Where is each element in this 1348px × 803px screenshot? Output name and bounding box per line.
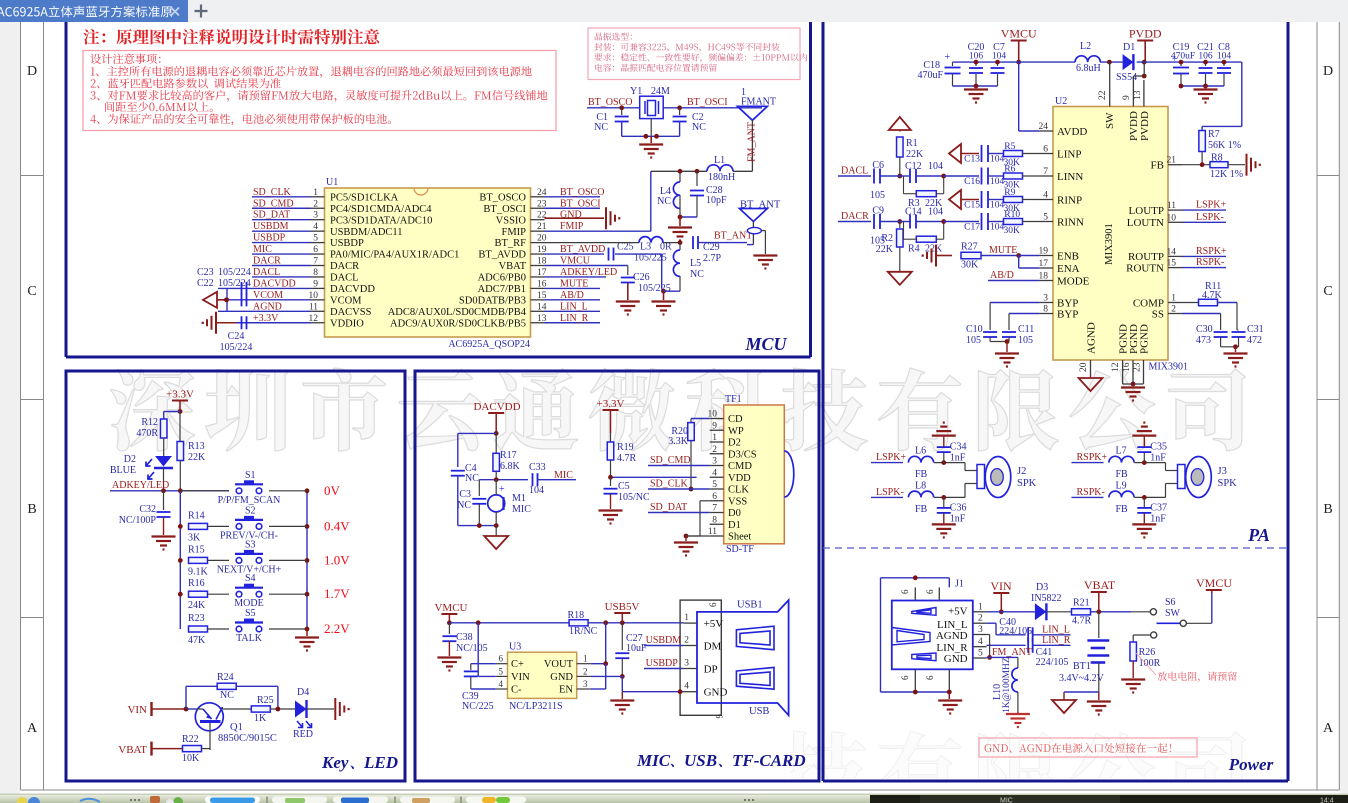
net USBDP (usb) (644, 658, 684, 669)
svg-text:C32: C32 (139, 504, 156, 515)
svg-text:C13: C13 (964, 155, 980, 165)
resistor R19 4.7R (607, 433, 636, 477)
svg-text:105/224: 105/224 (220, 342, 253, 353)
key ladder left rail (178, 491, 183, 629)
svg-text:S2: S2 (245, 505, 256, 516)
svg-text:20: 20 (1079, 362, 1089, 372)
battery ground rail (1052, 692, 1111, 715)
capacitor C14 104 (900, 207, 944, 229)
capacitor C26 105/225 (545, 256, 671, 315)
svg-text:R18: R18 (568, 610, 585, 621)
U1 pin 9 DACVDD (311, 279, 376, 295)
svg-text:1: 1 (712, 433, 717, 443)
resistor R6 30K (1004, 165, 1040, 191)
net DACR wire to U1 pin 7 (252, 256, 311, 267)
svg-text:VSS: VSS (728, 496, 747, 507)
svg-text:13: 13 (1133, 90, 1143, 100)
svg-text:R16: R16 (188, 578, 205, 589)
svg-text:7: 7 (1043, 167, 1048, 177)
op-amp U2 MIX3901 body (1053, 96, 1188, 373)
svg-text:104: 104 (928, 161, 943, 172)
note GND AGND box (979, 738, 1197, 757)
resistor R22 10K (182, 734, 210, 764)
net BT_OSCI pin23 wire (545, 198, 601, 209)
svg-text:USB: USB (684, 751, 717, 770)
regulator U3 NC/LP3211S (508, 642, 577, 713)
note heading (83, 29, 379, 45)
svg-text:MIC: MIC (636, 751, 671, 770)
svg-text:SD_CMD: SD_CMD (650, 455, 691, 466)
svg-text:0R: 0R (660, 242, 672, 253)
svg-text:FB: FB (1116, 504, 1129, 515)
svg-text:4.7K: 4.7K (1202, 290, 1223, 301)
svg-text:3: 3 (978, 625, 983, 635)
svg-text:104: 104 (928, 207, 943, 218)
mcu U1 AC6925A (325, 177, 531, 350)
capacitor C31 472 (1232, 324, 1264, 347)
svg-text:472: 472 (1247, 335, 1262, 346)
capacitor C17 104 (944, 213, 1005, 233)
switch S6 SW (1131, 592, 1212, 626)
svg-text:USB: USB (749, 706, 769, 717)
signal ground U1 pin22 (545, 207, 621, 229)
wire AVDD to VMCU rail (1019, 62, 1039, 131)
net AB/D pin15 (545, 290, 601, 301)
U2 pin 15 ROUTN (1126, 259, 1182, 275)
left bank ground rail (953, 84, 998, 103)
J1 label AGND (936, 630, 968, 642)
svg-text:22: 22 (1098, 90, 1108, 100)
svg-text:R26: R26 (1139, 647, 1156, 658)
signal ground at +3.3V row (202, 312, 236, 334)
U3 pin 3 EN (559, 679, 591, 696)
svg-text:CLK: CLK (728, 485, 749, 496)
svg-text:1: 1 (684, 613, 689, 623)
svg-text:6: 6 (900, 589, 910, 594)
wire BYP pin3 (990, 303, 1039, 331)
TF1 pin 9 WP (710, 421, 744, 437)
antenna BT_ANT (739, 200, 780, 255)
mic ground rail (458, 523, 508, 549)
net FM_ANT (power) (987, 647, 1032, 658)
svg-text:BLUE: BLUE (110, 465, 136, 476)
svg-text:AVDD: AVDD (1057, 126, 1087, 138)
taskbar (0, 794, 1348, 803)
svg-text:TF1: TF1 (725, 394, 742, 405)
svg-text:VIN: VIN (127, 704, 147, 716)
MIC USB TF section title (636, 751, 806, 770)
net SD_DAT (tf) (648, 502, 710, 513)
wire DACVDD-AGND bypass (224, 288, 229, 311)
resistor R25 1K (251, 695, 295, 724)
svg-text:6.8uH: 6.8uH (1076, 63, 1101, 74)
U1 pin 8 DACL (311, 268, 359, 284)
net SD_CLK wire to U1 pin 1 (252, 187, 311, 198)
inductor L2 6.8uH (1075, 41, 1101, 74)
svg-text:GND: GND (704, 687, 728, 699)
net VCOM wire to U1 pin 10 (218, 290, 311, 301)
svg-text:S5: S5 (245, 608, 256, 619)
power flag VBAT (power) (1084, 578, 1116, 612)
BT_ANT ground (747, 245, 777, 269)
C35 ground (1132, 423, 1156, 436)
svg-text:4.7R: 4.7R (617, 453, 637, 464)
crystal Y1 24M (630, 86, 670, 119)
wire U3 VOUT up (591, 623, 608, 666)
inductor L10 1K@100MHZ (992, 657, 1018, 713)
svg-text:L5: L5 (690, 258, 701, 269)
svg-text:C: C (1323, 284, 1332, 299)
capacitor C37 1nF (1137, 497, 1167, 524)
svg-text:NC/225: NC/225 (462, 701, 494, 712)
svg-text:IN5822: IN5822 (1031, 593, 1062, 604)
svg-text:C15: C15 (964, 201, 980, 211)
svg-text:105/224: 105/224 (218, 267, 251, 278)
svg-text:PA0/MIC/PA4/AUX1R/ADC1: PA0/MIC/PA4/AUX1R/ADC1 (330, 250, 459, 261)
wire R19 to VDD (608, 475, 697, 480)
U1 pin 16 ADC7/PB1 (478, 279, 547, 295)
svg-text:ADC9/AUX0R/SD0CLKB/PB5: ADC9/AUX0R/SD0CLKB/PB5 (390, 318, 526, 329)
svg-text:FMIP: FMIP (501, 227, 526, 238)
svg-text:R4: R4 (908, 244, 920, 255)
U1 pin 11 DACVSS (309, 302, 372, 318)
svg-text:8: 8 (1043, 305, 1048, 315)
svg-text:B: B (27, 502, 36, 517)
node VCOM ref triangle (203, 292, 229, 308)
right bank ground rail (1179, 84, 1224, 103)
power flag DACVDD (473, 401, 520, 436)
svg-text:ROUTN: ROUTN (1126, 262, 1164, 274)
J1 pin 5 (973, 649, 987, 659)
svg-text:105: 105 (966, 335, 981, 346)
capacitor C20 106 (968, 42, 985, 86)
svg-text:PC4/SD1CMDA/ADC4: PC4/SD1CMDA/ADC4 (330, 204, 432, 215)
svg-text:MIC: MIC (512, 504, 531, 515)
svg-text:FB: FB (915, 469, 928, 480)
inductor L6 FB (908, 446, 965, 481)
wire DACVDD branch (458, 433, 496, 467)
svg-text:8: 8 (712, 515, 717, 525)
USB1 pin 1 +5V (684, 613, 724, 630)
wire +5V row (987, 611, 1035, 613)
svg-text:ADKEY/LED: ADKEY/LED (112, 480, 169, 491)
svg-text:0.4V: 0.4V (324, 518, 350, 533)
svg-text:+: + (499, 484, 505, 495)
svg-text:VIN: VIN (511, 672, 530, 683)
resistor R11 4.7K (1182, 281, 1237, 330)
svg-text:C34: C34 (950, 442, 967, 453)
svg-text:5: 5 (712, 480, 717, 490)
svg-text:VBAT: VBAT (1084, 578, 1116, 592)
svg-text:1nF: 1nF (950, 453, 966, 464)
TF1 pin 5 CLK (710, 480, 750, 496)
svg-text:AB/D: AB/D (990, 270, 1014, 281)
svg-text:S1: S1 (245, 470, 256, 481)
power flag VMCU (power) (1196, 576, 1232, 593)
net label BT_OSCI (top) (663, 97, 762, 110)
U2 pin 20 AGND (1079, 322, 1103, 391)
svg-text:C5: C5 (618, 481, 630, 492)
U3 pin 5 VIN (496, 666, 530, 683)
wire SS to C30 (1182, 314, 1221, 331)
svg-text:9: 9 (1122, 95, 1132, 100)
svg-text:Key: Key (321, 753, 349, 772)
svg-text:USBDM: USBDM (253, 221, 289, 232)
svg-text:FB: FB (1151, 160, 1164, 172)
svg-text:106: 106 (969, 52, 984, 62)
power flag VMCU (PA) (1001, 27, 1037, 65)
svg-text:D3: D3 (1036, 582, 1048, 593)
net GND pin22 label (560, 210, 582, 221)
svg-text:10uF: 10uF (626, 643, 647, 654)
wire Sheet to gnd (674, 534, 710, 556)
power flag VMCU (usb) (434, 602, 467, 625)
TF1 pin 6 VSS (710, 492, 748, 508)
svg-text:R5: R5 (1004, 142, 1015, 152)
U2 pin 11 LOUTP (1129, 201, 1182, 217)
J1 label LIN_R (936, 642, 968, 654)
U3 pin 6 C+ (496, 654, 524, 671)
svg-text:24K: 24K (188, 600, 206, 611)
J1 label LIN_L (937, 619, 968, 631)
svg-text:LSPK-: LSPK- (1196, 212, 1224, 223)
net MUTE (989, 245, 1039, 268)
U1 pin 7 DACR (311, 257, 360, 273)
svg-text:C6: C6 (872, 160, 884, 171)
svg-text:NC: NC (692, 122, 706, 133)
C1 C2 plates (615, 117, 687, 139)
svg-text:104: 104 (990, 155, 1005, 165)
svg-text:C33: C33 (529, 462, 546, 473)
svg-text:6: 6 (925, 675, 935, 680)
U1 pin 23 BT_OSCI (483, 199, 546, 215)
diode D1 SS54 (1116, 42, 1137, 83)
net RSPK- (1072, 487, 1105, 498)
U3 pin 2 GND (550, 666, 590, 683)
svg-text:C23: C23 (197, 267, 214, 278)
usb connector USB1 shield (680, 600, 724, 719)
TF1 pin 8 D1 (710, 515, 741, 531)
svg-text:D1: D1 (728, 520, 741, 531)
crystal ground (639, 136, 663, 157)
capacitor C4 NC (451, 463, 479, 526)
svg-text:VMCU: VMCU (560, 256, 591, 267)
svg-text:30K: 30K (1004, 226, 1021, 236)
svg-text:3: 3 (583, 679, 588, 689)
speaker J2 SPK (965, 457, 1037, 498)
svg-text:SW: SW (1165, 608, 1181, 619)
svg-text:BT1: BT1 (1073, 661, 1091, 672)
svg-text:TALK: TALK (236, 633, 263, 644)
Key LED section title (321, 753, 398, 772)
svg-text:3: 3 (684, 659, 689, 669)
svg-text:U1: U1 (326, 177, 338, 188)
net MUTE pin16 (545, 278, 601, 289)
svg-text:MUTE: MUTE (989, 245, 1017, 256)
svg-text:4: 4 (313, 222, 318, 232)
svg-text:9: 9 (313, 279, 318, 289)
svg-text:5: 5 (313, 234, 318, 244)
capacitor C10 105 (966, 324, 997, 346)
svg-text:S6: S6 (1165, 597, 1176, 608)
microphone M1 MIC (488, 480, 532, 526)
svg-text:RSPK+: RSPK+ (1077, 452, 1108, 463)
svg-text:2: 2 (313, 199, 318, 209)
U1 pin 17 ADC6/PB0 (478, 268, 547, 284)
net LIN_L (power) (1042, 625, 1070, 636)
svg-text:6: 6 (925, 589, 935, 594)
svg-text:1.7V: 1.7V (324, 586, 350, 601)
svg-text:P/P/FM_SCAN: P/P/FM_SCAN (218, 495, 281, 506)
capacitor C40 224/105 (999, 617, 1070, 642)
U2 pin 14 ROUTP (1128, 247, 1182, 263)
svg-text:DACR: DACR (330, 261, 359, 272)
svg-text:+3.3V: +3.3V (166, 389, 194, 401)
svg-text:L9: L9 (1116, 480, 1127, 491)
capacitor C15 104 (964, 191, 1004, 211)
svg-text:DP: DP (704, 663, 718, 675)
svg-text:6: 6 (499, 654, 504, 664)
svg-text:PVDD: PVDD (1129, 27, 1162, 41)
svg-text:RED: RED (293, 729, 313, 740)
svg-text:C16: C16 (964, 177, 980, 187)
watermark row 1 (110, 368, 1245, 451)
usb5v rail (449, 620, 569, 625)
net label BT_OSCO (top) (587, 97, 640, 110)
signal ground R27 (922, 245, 952, 267)
J1 pin 1 (973, 602, 987, 612)
svg-text:LINP: LINP (1057, 148, 1081, 160)
svg-text:21: 21 (1167, 156, 1177, 166)
capacitor C29 2.7P (693, 231, 752, 265)
svg-text:14: 14 (1167, 247, 1177, 257)
svg-text:Y1: Y1 (630, 86, 642, 97)
svg-text:USBDM: USBDM (646, 635, 682, 646)
inductor L3 0R (545, 237, 683, 253)
switch S2 PREV/V-/CH- (220, 505, 307, 541)
svg-text:L6: L6 (915, 446, 926, 457)
resistor R15 9.1K (188, 544, 229, 577)
svg-text:NC/105: NC/105 (456, 643, 488, 654)
crystal selection note box (588, 28, 807, 80)
net USBDP wire to U1 pin 5 (252, 233, 311, 244)
U2 pin 5 RINN (1039, 213, 1084, 229)
switch S5 TALK (235, 608, 307, 644)
U2 pin 19 ENB (1039, 247, 1080, 263)
svg-text:2: 2 (583, 666, 588, 676)
wire LIN_L from J1 (987, 623, 1026, 635)
svg-text:PC3/SD1DATA/ADC10: PC3/SD1DATA/ADC10 (330, 215, 432, 226)
svg-text:1: 1 (978, 602, 983, 612)
wire VIN node (184, 686, 217, 711)
svg-text:ADC7/PB1: ADC7/PB1 (478, 284, 526, 295)
net ADKEY/LED pin17 wire (545, 267, 618, 278)
svg-text:LIN_R: LIN_R (560, 313, 589, 324)
svg-text:47K: 47K (188, 635, 206, 646)
svg-text:C24: C24 (228, 331, 245, 342)
svg-text:4.7R: 4.7R (1072, 616, 1092, 627)
svg-text:R14: R14 (188, 510, 205, 521)
svg-text:NC: NC (657, 196, 671, 207)
svg-text:C31: C31 (1247, 324, 1264, 335)
svg-text:12: 12 (1111, 362, 1121, 372)
capacitor C41 224/105 (1028, 638, 1070, 668)
svg-text:105: 105 (870, 190, 885, 201)
svg-text:LSPK-: LSPK- (876, 487, 904, 498)
U1 pin 1 PC5/SD1CLKA (311, 188, 399, 204)
inductor L5 NC (673, 243, 704, 292)
resistor R26 100R (1121, 642, 1160, 693)
L10 ground (1006, 712, 1030, 727)
power flag USB5V (605, 601, 640, 623)
svg-text:17: 17 (1039, 259, 1049, 269)
svg-text:L3: L3 (640, 242, 651, 253)
wire rail to R7 (1202, 62, 1242, 132)
svg-text:SD_DAT: SD_DAT (253, 210, 290, 221)
svg-text:USBDP: USBDP (330, 238, 364, 249)
BYP ground (990, 339, 1019, 366)
net DACR (838, 211, 902, 224)
svg-text:PA: PA (1247, 525, 1270, 545)
net LIN_L pin14 (545, 301, 601, 312)
svg-text:R24: R24 (217, 672, 234, 683)
svg-text:BYP: BYP (1057, 308, 1078, 320)
svg-text:AGND: AGND (936, 630, 968, 642)
net SD_CMD (tf) (648, 455, 710, 466)
wire Q1 collector row (223, 708, 252, 710)
power flag PVDD (1129, 27, 1162, 65)
svg-text:1R/NC: 1R/NC (569, 626, 598, 637)
svg-text:NC: NC (465, 473, 479, 484)
svg-text:C9: C9 (872, 206, 884, 217)
design notes box (83, 51, 556, 131)
svg-text:Power: Power (1228, 755, 1274, 774)
U2 pin 18 MODE (1039, 272, 1090, 288)
svg-text:104: 104 (992, 52, 1007, 62)
USB1 pin 2 DM (684, 636, 722, 653)
svg-text:180nH: 180nH (708, 172, 735, 183)
svg-text:FB: FB (915, 504, 928, 515)
U2 pin 17 ENA (1039, 259, 1080, 275)
U2 pin 6 LINP (1039, 145, 1081, 161)
resistor R13 22K (177, 412, 206, 491)
svg-text:R27: R27 (961, 242, 978, 253)
svg-text:C30: C30 (1196, 324, 1213, 335)
svg-text:VBAT: VBAT (118, 744, 147, 756)
svg-text:R15: R15 (188, 544, 205, 555)
capacitor C30 473 (1196, 324, 1228, 347)
net BT_OSCO pin24 wire (545, 187, 605, 198)
U1 pin 3 PC3/SD1DATA/ADC10 (311, 211, 433, 227)
net RSPK+ (1072, 452, 1108, 463)
svg-text:30K: 30K (1004, 181, 1021, 191)
svg-text:L8: L8 (915, 480, 926, 491)
Key LED section box (66, 371, 405, 781)
svg-text:R1: R1 (906, 138, 918, 149)
svg-text:BT_OSCO: BT_OSCO (588, 97, 632, 108)
svg-text:2: 2 (684, 636, 689, 646)
svg-text:J2: J2 (1017, 466, 1026, 477)
svg-text:BT_OSCI: BT_OSCI (560, 198, 601, 209)
J1 label +5V (948, 606, 968, 618)
svg-text:1.0V: 1.0V (324, 552, 350, 567)
svg-text:1nF: 1nF (1150, 453, 1166, 464)
resistor R24 NC (217, 672, 278, 709)
svg-text:LSPK+: LSPK+ (1196, 200, 1226, 211)
svg-text:NC/100P: NC/100P (119, 515, 157, 526)
resistor R7 56K 1% (1199, 129, 1241, 165)
wire to R12 (164, 412, 180, 420)
